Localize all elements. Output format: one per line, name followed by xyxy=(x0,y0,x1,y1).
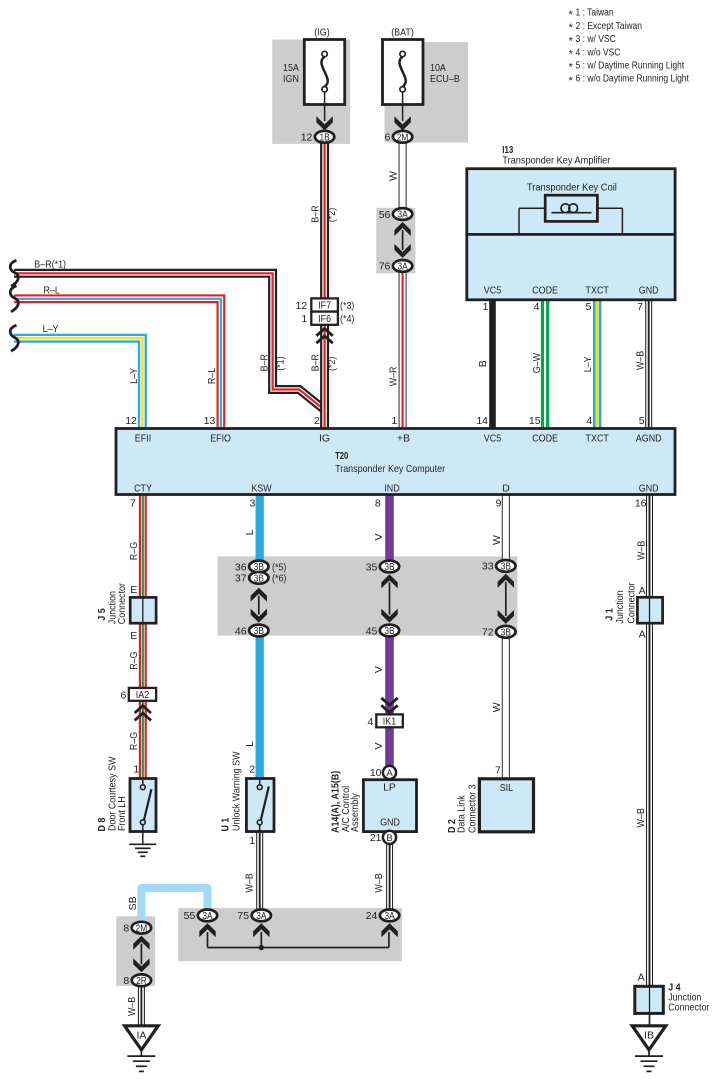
svg-text:W–B: W–B xyxy=(373,873,385,892)
svg-text:46: 46 xyxy=(235,625,247,637)
svg-text:A: A xyxy=(639,585,646,597)
svg-text:B: B xyxy=(386,833,392,844)
svg-text:KSW: KSW xyxy=(251,482,271,494)
svg-text:G–W: G–W xyxy=(531,353,543,373)
svg-text:T20: T20 xyxy=(335,450,348,462)
svg-text:SIL: SIL xyxy=(500,782,514,794)
svg-text:35: 35 xyxy=(366,561,378,573)
svg-text:B: B xyxy=(477,360,489,367)
svg-text:L: L xyxy=(244,741,256,747)
svg-text:6: 6 xyxy=(120,690,126,702)
svg-text:W: W xyxy=(491,702,503,712)
svg-text:*: * xyxy=(569,35,574,47)
svg-text:3 : w/ VSC: 3 : w/ VSC xyxy=(576,34,616,45)
svg-text:45: 45 xyxy=(366,625,378,637)
svg-text:L–Y: L–Y xyxy=(43,323,59,335)
svg-text:Transponder Key Coil: Transponder Key Coil xyxy=(527,182,617,194)
svg-text:Unlock Warning SW: Unlock Warning SW xyxy=(231,751,243,831)
svg-text:*: * xyxy=(569,49,574,61)
svg-text:33: 33 xyxy=(482,561,494,573)
svg-text:+B: +B xyxy=(397,432,410,444)
svg-text:Connector: Connector xyxy=(626,582,638,624)
svg-text:E: E xyxy=(130,630,137,642)
svg-text:24: 24 xyxy=(366,910,378,922)
svg-text:12: 12 xyxy=(125,415,137,427)
svg-text:56: 56 xyxy=(379,209,391,221)
svg-text:W–B: W–B xyxy=(635,808,647,827)
svg-text:W: W xyxy=(388,171,400,181)
svg-text:*: * xyxy=(569,75,574,87)
svg-text:13: 13 xyxy=(204,415,216,427)
svg-text:TXCT: TXCT xyxy=(586,432,610,444)
svg-text:1 : Taiwan: 1 : Taiwan xyxy=(576,8,614,19)
svg-text:IF7: IF7 xyxy=(318,300,331,312)
svg-text:4 : w/o VSC: 4 : w/o VSC xyxy=(576,47,621,58)
svg-text:15: 15 xyxy=(529,415,541,427)
svg-text:EFIO: EFIO xyxy=(210,432,231,444)
svg-text:(IG): (IG) xyxy=(314,26,329,38)
svg-text:1: 1 xyxy=(483,301,489,313)
svg-text:(*3): (*3) xyxy=(340,300,354,312)
svg-text:2 : Except Taiwan: 2 : Except Taiwan xyxy=(576,21,643,32)
svg-text:1: 1 xyxy=(133,764,139,776)
svg-text:4: 4 xyxy=(368,716,374,728)
svg-text:3B: 3B xyxy=(501,627,512,638)
svg-text:W: W xyxy=(491,535,503,545)
svg-text:6 : w/o Daytime Running Light: 6 : w/o Daytime Running Light xyxy=(576,74,690,85)
svg-text:(*2): (*2) xyxy=(326,208,338,222)
svg-text:8: 8 xyxy=(123,923,129,935)
svg-text:6: 6 xyxy=(385,132,391,144)
svg-text:W–R: W–R xyxy=(387,366,399,386)
svg-text:7: 7 xyxy=(130,498,136,510)
svg-text:(*4): (*4) xyxy=(340,313,354,325)
svg-text:9: 9 xyxy=(496,498,502,510)
svg-text:12: 12 xyxy=(296,300,308,312)
svg-text:R–G: R–G xyxy=(128,542,140,560)
svg-text:Connector 3: Connector 3 xyxy=(467,784,479,833)
svg-text:1: 1 xyxy=(301,313,307,325)
svg-text:3B: 3B xyxy=(384,626,395,637)
svg-text:LP: LP xyxy=(383,782,396,794)
svg-text:12: 12 xyxy=(301,132,313,144)
svg-text:R–G: R–G xyxy=(128,732,140,750)
svg-text:7: 7 xyxy=(637,301,643,313)
svg-text:L–Y: L–Y xyxy=(128,368,140,384)
svg-text:CTY: CTY xyxy=(134,482,152,494)
svg-text:Front LH: Front LH xyxy=(116,796,128,831)
svg-text:B–R: B–R xyxy=(259,354,271,372)
svg-text:2M: 2M xyxy=(136,923,148,934)
svg-text:5 : w/ Daytime Running Light: 5 : w/ Daytime Running Light xyxy=(576,61,685,72)
svg-text:W–B: W–B xyxy=(243,873,255,892)
svg-text:R–L: R–L xyxy=(206,368,218,385)
svg-text:IB: IB xyxy=(644,1029,654,1041)
svg-text:*: * xyxy=(569,62,574,74)
svg-text:14: 14 xyxy=(476,415,488,427)
svg-text:2M: 2M xyxy=(397,132,409,143)
svg-text:3B: 3B xyxy=(254,573,265,584)
svg-text:GND: GND xyxy=(639,284,659,296)
svg-text:AGND: AGND xyxy=(636,432,662,444)
svg-text:3B: 3B xyxy=(501,562,512,573)
svg-text:R–G: R–G xyxy=(128,651,140,669)
svg-text:3A: 3A xyxy=(385,911,396,922)
svg-text:Transponder Key Computer: Transponder Key Computer xyxy=(335,463,445,475)
svg-text:21: 21 xyxy=(370,832,382,844)
svg-text:(*5): (*5) xyxy=(272,561,286,573)
svg-text:A: A xyxy=(638,971,645,983)
svg-text:3A: 3A xyxy=(398,262,409,273)
svg-text:*: * xyxy=(569,22,574,34)
svg-text:A: A xyxy=(639,628,646,640)
svg-text:(*6): (*6) xyxy=(272,573,286,585)
svg-text:V: V xyxy=(373,533,385,540)
svg-text:TXCT: TXCT xyxy=(586,284,610,296)
svg-text:GND: GND xyxy=(380,816,400,828)
svg-text:IK1: IK1 xyxy=(383,716,397,728)
svg-text:EFII: EFII xyxy=(135,432,151,444)
svg-text:W–B: W–B xyxy=(635,351,647,370)
svg-text:Transponder Key Amplifier: Transponder Key Amplifier xyxy=(502,154,610,166)
svg-text:72: 72 xyxy=(482,627,494,639)
svg-text:VC5: VC5 xyxy=(484,432,502,444)
svg-text:GND: GND xyxy=(639,482,659,494)
svg-text:5: 5 xyxy=(586,301,592,313)
svg-text:4: 4 xyxy=(587,415,593,427)
svg-text:37: 37 xyxy=(235,573,247,585)
svg-text:IF6: IF6 xyxy=(318,313,331,325)
svg-text:B–R: B–R xyxy=(310,354,322,372)
svg-text:3A: 3A xyxy=(256,911,267,922)
svg-text:V: V xyxy=(373,742,385,749)
svg-text:L–Y: L–Y xyxy=(582,356,594,372)
svg-text:75: 75 xyxy=(237,910,249,922)
svg-text:CODE: CODE xyxy=(532,432,558,444)
svg-text:3: 3 xyxy=(249,498,255,510)
svg-text:R–L: R–L xyxy=(44,285,61,297)
svg-text:(*2): (*2) xyxy=(326,357,338,371)
svg-text:16: 16 xyxy=(635,498,647,510)
svg-text:W–B: W–B xyxy=(126,997,138,1016)
svg-text:(BAT): (BAT) xyxy=(391,26,414,38)
svg-text:SB: SB xyxy=(127,896,139,910)
svg-text:Connector: Connector xyxy=(668,1001,710,1013)
svg-text:7: 7 xyxy=(495,765,501,777)
svg-text:4: 4 xyxy=(534,301,540,313)
svg-text:W–B: W–B xyxy=(636,541,648,560)
svg-text:3B: 3B xyxy=(384,562,395,573)
svg-text:B–R: B–R xyxy=(310,205,322,223)
svg-text:VC5: VC5 xyxy=(484,284,502,296)
svg-text:Connector: Connector xyxy=(116,583,128,625)
svg-text:55: 55 xyxy=(184,910,196,922)
svg-text:IA: IA xyxy=(136,1029,146,1041)
svg-text:8: 8 xyxy=(375,498,381,510)
svg-text:(*1): (*1) xyxy=(275,356,287,370)
svg-text:8: 8 xyxy=(123,975,129,987)
svg-text:Assembly: Assembly xyxy=(349,793,361,832)
svg-text:ECU–B: ECU–B xyxy=(430,73,460,85)
svg-text:IGN: IGN xyxy=(283,73,299,85)
svg-text:V: V xyxy=(373,666,385,673)
svg-text:1B: 1B xyxy=(320,132,331,143)
svg-text:76: 76 xyxy=(379,261,391,273)
svg-text:L: L xyxy=(244,529,256,535)
svg-text:10: 10 xyxy=(370,767,382,779)
svg-text:D: D xyxy=(502,482,510,494)
svg-text:E: E xyxy=(130,584,137,596)
svg-text:3B: 3B xyxy=(254,626,265,637)
svg-text:2R: 2R xyxy=(136,976,147,987)
svg-text:A: A xyxy=(386,768,393,779)
svg-text:5: 5 xyxy=(639,415,645,427)
svg-text:1: 1 xyxy=(391,415,397,427)
svg-text:IA2: IA2 xyxy=(136,689,150,701)
svg-text:B–R(*1): B–R(*1) xyxy=(34,259,66,271)
svg-text:CODE: CODE xyxy=(532,284,558,296)
svg-text:2: 2 xyxy=(249,764,255,776)
svg-text:3A: 3A xyxy=(202,911,213,922)
svg-text:1: 1 xyxy=(249,835,255,847)
svg-text:IG: IG xyxy=(319,432,330,444)
svg-text:36: 36 xyxy=(235,561,247,573)
svg-text:Junction: Junction xyxy=(614,590,626,623)
svg-text:*: * xyxy=(569,9,574,21)
svg-text:3A: 3A xyxy=(398,210,409,221)
svg-text:2: 2 xyxy=(314,415,320,427)
svg-text:IND: IND xyxy=(384,482,400,494)
